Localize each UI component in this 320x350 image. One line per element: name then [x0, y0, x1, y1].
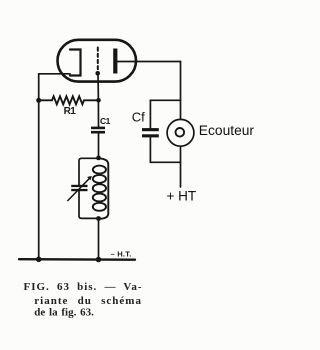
svg-text:riante du schéma: riante du schéma — [34, 295, 142, 307]
node junction R1 left — [36, 98, 41, 103]
capacitor C1 — [91, 127, 105, 130]
wire tank loop bottom/left — [79, 191, 99, 218]
wire grid lead down — [97, 73, 100, 126]
tube V1 grid (dashed) — [97, 48, 99, 71]
resistor R1 — [39, 96, 99, 104]
svg-text:Ecouteur: Ecouteur — [199, 123, 255, 138]
tube V1 plate bar — [113, 49, 117, 74]
wire Cf loop top — [150, 100, 180, 128]
wire Cf loop bottom — [150, 138, 180, 163]
tube V1 grid terminal dot — [95, 71, 100, 76]
svg-text:+ HT: + HT — [167, 188, 197, 203]
svg-text:R1: R1 — [64, 106, 77, 117]
wire left vertical — [38, 74, 40, 259]
node tank bottom junction — [96, 216, 101, 221]
capacitor Cf — [142, 128, 159, 131]
variable capacitor CV plates — [71, 185, 87, 187]
node junction grid/R1 — [96, 98, 101, 103]
wire bottom rail -HT — [19, 258, 135, 261]
wire tank loop top/left — [79, 158, 99, 184]
earphone inner circle — [176, 128, 185, 137]
inductor L1 coil — [99, 158, 109, 219]
svg-text:Cf: Cf — [132, 110, 145, 125]
node rail left junction — [36, 257, 42, 263]
node tank top junction — [96, 156, 101, 161]
svg-text:FIG. 63 bis. — Va-: FIG. 63 bis. — Va- — [24, 281, 143, 293]
wire right vertical from plate — [180, 62, 182, 120]
svg-text:C1: C1 — [100, 116, 111, 126]
wire ecouteur bottom to +HT — [180, 146, 182, 187]
svg-text:– H.T.: – H.T. — [111, 250, 132, 259]
tube V1 envelope — [58, 40, 137, 82]
wire tank to ground rail — [98, 219, 100, 260]
variable capacitor arrow — [68, 178, 90, 201]
wire cathode lead left — [39, 73, 70, 75]
earphone (Ecouteur) outer circle — [167, 119, 194, 146]
svg-text:de la fig. 63.: de la fig. 63. — [34, 306, 94, 318]
tube V1 cathode bracket — [70, 50, 81, 76]
node rail mid junction — [96, 257, 102, 263]
wire plate lead to right — [117, 61, 180, 63]
wire C1 to tank — [98, 134, 100, 158]
